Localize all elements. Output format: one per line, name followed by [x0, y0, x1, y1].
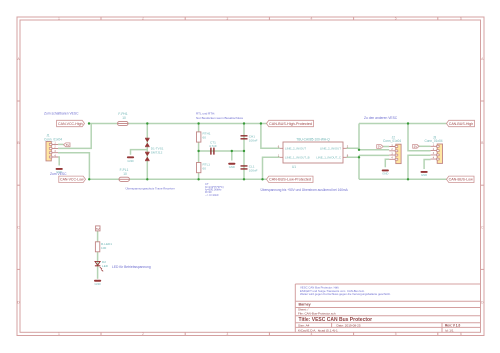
svg-text:CAN-BUS-High: CAN-BUS-High: [449, 122, 474, 126]
svg-text:4: 4: [311, 332, 313, 336]
svg-text:2: 2: [142, 17, 144, 21]
wire LED column: [97, 231, 99, 279]
svg-text:Rev: V 1.0: Rev: V 1.0: [445, 324, 460, 328]
svg-text:10: 10: [123, 172, 127, 176]
wire RTL1 column: [198, 151, 200, 179]
svg-text:2: 2: [142, 332, 144, 336]
svg-text:3: 3: [226, 17, 228, 21]
svg-text:GND: GND: [127, 159, 133, 163]
note: Ueberspannungsschutz Trans-Receiver: [126, 187, 175, 191]
global label CAN-VCC-Low: [59, 176, 86, 182]
wire U1 left bottom: [263, 157, 280, 179]
wire CH1/CL1 column: [243, 124, 245, 180]
wire mid rail (between RT resistors and CT cap): [199, 150, 244, 152]
svg-text:10: 10: [122, 116, 126, 120]
svg-text:Überspannung bis +50V und Über: Überspannung bis +50V und Überstrom ausü…: [261, 188, 349, 192]
svg-text:CAN-BUS-Low-Protected: CAN-BUS-Low-Protected: [269, 178, 311, 182]
svg-text:3: 3: [226, 332, 228, 336]
note: CT formula block: [205, 182, 224, 197]
svg-text:GND: GND: [382, 172, 388, 176]
wire J3 high branch: [408, 124, 431, 151]
svg-text:5V: 5V: [66, 143, 70, 147]
svg-text:100nF: 100nF: [249, 139, 258, 143]
gnd at J2: [382, 170, 389, 176]
gnd at CT: [228, 163, 235, 169]
capacitor CT1: [209, 141, 217, 155]
note: Zum VESC: [50, 172, 67, 176]
junction dots: [88, 122, 409, 180]
global label CAN-BUS-Low-Protected: [267, 176, 314, 182]
svg-text:5V: 5V: [378, 145, 382, 149]
svg-text:LINE_1_IN/OUT_C: LINE_1_IN/OUT_C: [316, 155, 341, 159]
wire J3 pin1 to 5V: [418, 145, 430, 147]
connector J3: [424, 135, 442, 163]
svg-text:CAN-VCC-High: CAN-VCC-High: [58, 122, 83, 126]
wire U1 left top: [261, 124, 280, 149]
svg-text:SMTJ12: SMTJ12: [151, 150, 163, 154]
wire bottom rail left (CAN-VCC-Low net): [89, 178, 266, 180]
note: LED fuer Betriebsspannung: [112, 265, 151, 269]
resistor RTL1: [197, 163, 211, 173]
note: Ueberspannung bis ... 160mA: [261, 188, 349, 192]
wire U1 right bottom to bus: [347, 155, 390, 179]
svg-text:CAN-BUS-Low: CAN-BUS-Low: [449, 178, 474, 182]
svg-text:KiCad E.D.A. kicad (5.1.4)-1: KiCad E.D.A. kicad (5.1.4)-1: [298, 328, 338, 332]
svg-text:TBU-CA085-100-WH-Q: TBU-CA085-100-WH-Q: [296, 138, 330, 142]
note: Zu den anderen VESC: [364, 116, 398, 120]
svg-text:LED: LED: [102, 264, 109, 268]
svg-text:4: 4: [311, 17, 313, 21]
svg-text:Date: 2019-08-25: Date: 2019-08-25: [337, 324, 361, 328]
svg-text:5: 5: [395, 332, 397, 336]
svg-text:--> C=10nF: --> C=10nF: [205, 193, 219, 197]
resistor R-LED1: [95, 242, 112, 252]
capacitor CL1: [241, 165, 258, 173]
gnd at J1: [56, 168, 63, 174]
svg-text:Zu den anderen VESC: Zu den anderen VESC: [364, 116, 398, 120]
svg-text:100: 100: [101, 246, 106, 250]
wire U1 right top to bus: [347, 124, 390, 151]
wire mid gnd tap: [231, 151, 233, 161]
TVS diode D1-TVS1 pair A: [145, 138, 150, 147]
capacitor CH1: [241, 135, 258, 143]
svg-text:Conn_01x04: Conn_01x04: [383, 139, 401, 143]
svg-text:GND: GND: [229, 165, 235, 169]
wire J2 pin1 to 5V: [383, 146, 390, 148]
svg-text:U1: U1: [292, 165, 296, 169]
TBU U1: [278, 138, 349, 169]
svg-text:GND: GND: [421, 173, 427, 177]
svg-text:RTL und RTH:: RTL und RTH:: [196, 112, 215, 116]
global label CAN-VCC-High: [57, 120, 85, 126]
wire TVS column: [146, 124, 148, 180]
global label CAN-BUS-High: [447, 120, 475, 126]
wire right top rail: [359, 123, 447, 125]
fuse F-PH1: [118, 112, 128, 126]
connector J2: [383, 135, 401, 163]
svg-text:60: 60: [203, 166, 207, 170]
svg-text:Weiter wird gegen Kurzschluss: Weiter wird gegen Kurzschluss gegen die …: [300, 292, 391, 296]
gnd at LED: [94, 280, 101, 286]
wire right bottom rail: [359, 178, 447, 180]
gnd at J3: [421, 171, 428, 177]
svg-text:Conn_01x04: Conn_01x04: [424, 139, 442, 143]
power label 5V at J2 pin1: [377, 145, 383, 149]
svg-text:CAN-BUS-High-Protected: CAN-BUS-High-Protected: [269, 122, 312, 126]
wire J3 low branch: [408, 155, 431, 179]
wire J3 pin4 to gnd: [424, 160, 431, 170]
wire J1 pin3 to bottom rail: [58, 153, 89, 180]
power label 5V at J3 pin1: [413, 144, 419, 148]
wire top rail left (CAN-VCC-High net): [89, 123, 267, 125]
svg-text:5: 5: [395, 17, 397, 21]
wire J1 pin2 to top rail: [58, 124, 91, 149]
svg-text:4.7nF: 4.7nF: [209, 144, 217, 148]
LED D2: [95, 260, 109, 271]
svg-text:Zum VESC: Zum VESC: [50, 172, 67, 176]
svg-text:6: 6: [460, 332, 462, 336]
svg-text:5V: 5V: [96, 227, 100, 231]
connector J1: [44, 134, 62, 161]
svg-text:LINE_2_IN/OUT: LINE_2_IN/OUT: [320, 146, 341, 150]
fuse F-PL1: [119, 168, 129, 182]
svg-text:LINE_1_IN/OUT_B: LINE_1_IN/OUT_B: [285, 155, 310, 159]
global label CAN-BUS-Low: [447, 176, 475, 182]
global label CAN-BUS-High-Protected: [267, 120, 314, 126]
svg-text:100nF: 100nF: [249, 169, 258, 173]
wire J1 pin4 to gnd: [58, 157, 59, 166]
note: RTL und RTH: [196, 112, 244, 121]
svg-text:LINE_2_IN/OUT: LINE_2_IN/OUT: [285, 146, 306, 150]
svg-text:File: CAN-Bus-Protector.sch: File: CAN-Bus-Protector.sch: [298, 312, 336, 316]
svg-text:Id: 1/1: Id: 1/1: [445, 328, 454, 332]
gnd at TVS: [127, 156, 134, 162]
note: Zum schaltbaren VESC: [44, 112, 79, 116]
title block: [295, 284, 480, 332]
wire J2 pin4 to gnd: [385, 159, 389, 167]
svg-text:LED für Betriebsspannung: LED für Betriebsspannung: [112, 265, 151, 269]
power label 5V at J1 pin1: [64, 143, 71, 147]
TVS diode D1-TVS1 pair B: [145, 147, 164, 161]
svg-text:Überspannungsschutz Trans-Rece: Überspannungsschutz Trans-Receiver: [126, 187, 175, 191]
svg-text:1: 1: [58, 332, 60, 336]
resistor RTH1: [197, 132, 211, 142]
svg-text:5V: 5V: [414, 145, 418, 149]
svg-text:Size: A4: Size: A4: [298, 324, 310, 328]
power symbol 5V above LED: [96, 226, 100, 231]
svg-text:60: 60: [203, 135, 207, 139]
wire RTH1 column: [198, 124, 200, 152]
svg-text:6: 6: [460, 17, 462, 21]
svg-text:Nur Bestücken wenn Busabschlus: Nur Bestücken wenn Busabschluss: [196, 116, 244, 120]
wire TVS gnd tap: [131, 150, 148, 155]
svg-text:GND: GND: [94, 282, 100, 286]
svg-text:1: 1: [58, 17, 60, 21]
svg-text:Zum schaltbaren VESC: Zum schaltbaren VESC: [44, 112, 79, 116]
wire J1 pin1 to 5V: [58, 143, 64, 145]
svg-text:Barney: Barney: [299, 303, 311, 307]
svg-text:CAN-VCC-Low: CAN-VCC-Low: [60, 178, 84, 182]
svg-text:Title: VESC CAN Bus Protector: Title: VESC CAN Bus Protector: [299, 317, 373, 323]
